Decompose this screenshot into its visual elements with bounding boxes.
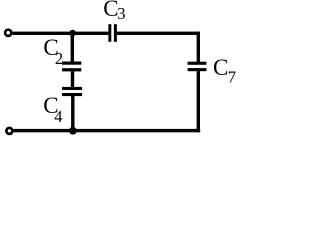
- svg-text:3: 3: [117, 4, 125, 23]
- wire: C7 bottom plate down to bottom-right corner: [197, 71, 200, 132]
- capacitor C3 (horizontal, top wire): [108, 24, 111, 42]
- node junction (bottom wire / C4 branch): [69, 127, 77, 135]
- wire: bottom, from bottom-left terminal to bottom-right corner: [14, 129, 201, 132]
- svg-text:7: 7: [228, 68, 236, 87]
- svg-text:4: 4: [54, 107, 62, 126]
- capacitor C7 (vertical, right branch): [188, 62, 207, 65]
- wire: right vertical, top corner down to C7 top plate: [197, 32, 200, 62]
- svg-text:C: C: [213, 55, 228, 80]
- wire: top-left terminal to C3 left plate: [13, 32, 109, 35]
- svg-text:2: 2: [55, 49, 63, 68]
- wire: C2 bottom plate to C4 top plate: [71, 71, 74, 87]
- capacitor C4 (vertical branch): [62, 87, 82, 90]
- circuit schematic: capacitor network C2 C3 C4 C7: [0, 0, 243, 137]
- wire: C4 bottom plate to bottom junction: [71, 96, 74, 131]
- terminal (bottom-left input): [6, 128, 12, 134]
- node junction (top wire / C2 branch): [69, 30, 76, 37]
- wire: junction down to C2 top plate: [71, 33, 74, 62]
- wire: C3 right plate to top-right corner: [117, 32, 200, 35]
- terminal (top-left input): [5, 30, 11, 36]
- capacitor C2 (vertical branch): [62, 62, 81, 65]
